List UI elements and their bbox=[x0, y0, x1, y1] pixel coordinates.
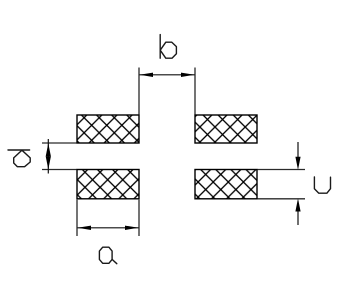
arrow d down bbox=[46, 156, 51, 169]
dimension line c upper bbox=[297, 142, 299, 157]
arrow a left bbox=[78, 226, 92, 230]
label b bbox=[160, 35, 176, 59]
extension line a left bbox=[76, 200, 78, 236]
hatched pad top-left bbox=[77, 115, 139, 143]
label a bbox=[99, 247, 116, 264]
arrow a right bbox=[125, 226, 139, 230]
object line d bottom bbox=[42, 169, 77, 171]
arrow d up bbox=[46, 143, 51, 156]
hatched pad bottom-left bbox=[77, 170, 139, 199]
hatched pad bottom-right bbox=[195, 170, 257, 199]
extension line a right bbox=[138, 200, 140, 236]
dimension line c lower bbox=[297, 212, 299, 226]
hatched pad top-right bbox=[195, 115, 257, 143]
object line c top bbox=[258, 169, 306, 171]
arrow b left bbox=[140, 73, 154, 77]
arrow b right bbox=[181, 73, 195, 77]
extension line b left bbox=[138, 68, 140, 115]
object line d top bbox=[42, 142, 77, 144]
dimension line d bbox=[47, 139, 49, 174]
arrow c down bbox=[295, 157, 300, 170]
object line c bottom bbox=[258, 198, 306, 200]
dimension line b bbox=[140, 74, 195, 76]
label d bbox=[8, 150, 30, 167]
dimension line a bbox=[78, 227, 139, 229]
arrow c up bbox=[295, 198, 300, 211]
label c bbox=[314, 177, 330, 193]
extension line b right bbox=[194, 68, 196, 115]
